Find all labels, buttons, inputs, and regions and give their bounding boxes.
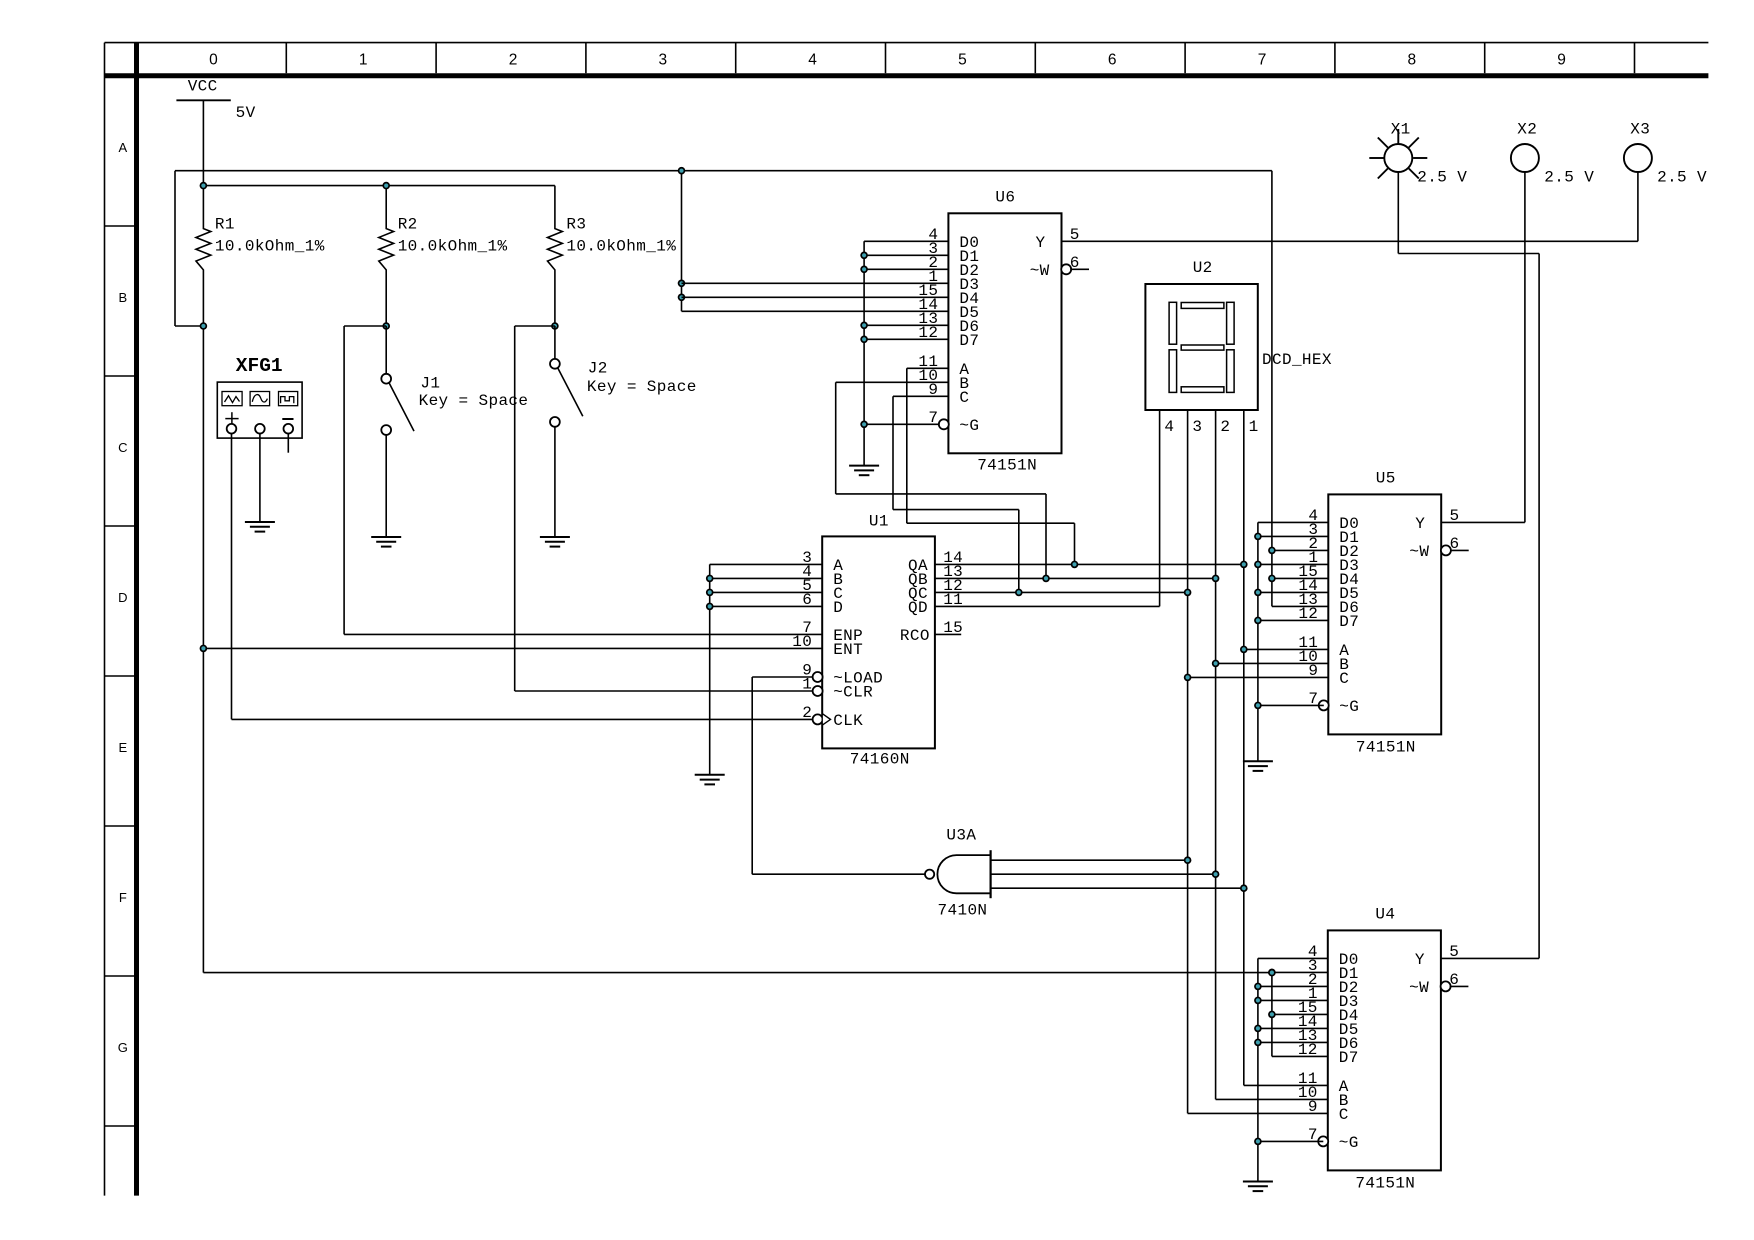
multiplexer U6 74151N (918, 189, 1089, 475)
svg-text:8: 8 (1407, 52, 1416, 69)
probe X2 (1511, 121, 1594, 187)
svg-text:7: 7 (1258, 52, 1267, 69)
svg-text:F: F (119, 890, 127, 905)
svg-text:74151N: 74151N (1355, 1174, 1415, 1192)
svg-text:U6: U6 (995, 189, 1015, 207)
svg-text:U1: U1 (869, 513, 889, 531)
wire U1 QC row (935, 591, 1188, 593)
wire high-net right drop x1272 (1271, 171, 1273, 607)
svg-text:B: B (118, 290, 127, 305)
wire X2 to U5 Y (1524, 171, 1526, 522)
svg-text:2: 2 (1220, 418, 1230, 436)
node U4 D1 high (1268, 969, 1276, 977)
switch J2 (550, 326, 697, 537)
wire U6 D0 to ground bus (864, 241, 948, 465)
node U3A input2 tap (1212, 870, 1220, 878)
node U6 D2 bus (860, 266, 868, 274)
ground U4 bus (1243, 1182, 1273, 1192)
svg-text:RCO: RCO (900, 627, 930, 645)
svg-text:G: G (118, 1040, 128, 1055)
wire U5 D1 (1258, 535, 1328, 537)
resistor R1 (196, 186, 325, 326)
wire U5 B select (1212, 660, 1329, 668)
node QC to display column 3 (1184, 589, 1192, 597)
svg-text:3: 3 (658, 52, 667, 69)
wire U1 QB row (935, 577, 1216, 579)
wire U6 D1 (864, 254, 948, 256)
svg-text:~G: ~G (959, 417, 979, 435)
svg-text:5: 5 (958, 52, 967, 69)
node U4 D6 bus (1254, 1039, 1262, 1047)
node U4 D3 bus (1254, 997, 1262, 1005)
wire U6 D7 (864, 338, 948, 340)
node U4 D1 from high run (1268, 969, 1276, 977)
wire U4 D0 to ground bus (1258, 958, 1328, 1181)
wire U6 ~G to bus (864, 423, 940, 425)
node U5 D1 bus (1254, 533, 1262, 541)
display U2 DCD_HEX (1145, 259, 1331, 436)
wire high-net drop to U6 data x681 (681, 171, 683, 312)
wire XFG1 plus terminal to U1 CLK (232, 434, 813, 720)
svg-text:XFG1: XFG1 (236, 355, 283, 377)
svg-text:R1: R1 (215, 216, 235, 234)
node R3 bottom junction (551, 322, 559, 330)
svg-text:X2: X2 (1517, 121, 1537, 139)
node U1 C bus (706, 589, 714, 597)
counter U1 74160N (792, 513, 963, 769)
wire U6 D4 (682, 296, 949, 298)
ground XFG1 common (245, 522, 275, 532)
wire U3A output to U1 ~LOAD (752, 677, 925, 874)
svg-text:2.5 V: 2.5 V (1657, 169, 1707, 187)
node U6 D4 tap (678, 294, 686, 302)
svg-text:~G: ~G (1339, 698, 1359, 716)
wire U4 high column D1-D4-D7 (1272, 973, 1328, 1057)
wire U5 D5 (1258, 591, 1328, 593)
node U4 D5 bus (1254, 1025, 1262, 1033)
node U5 D7 bus (1254, 617, 1262, 625)
svg-text:1: 1 (359, 52, 368, 69)
ground U5 bus (1243, 761, 1273, 771)
svg-text:U2: U2 (1193, 259, 1213, 277)
svg-text:3: 3 (1192, 418, 1202, 436)
svg-text:2: 2 (509, 52, 518, 69)
svg-text:U5: U5 (1376, 469, 1396, 487)
svg-text:VCC: VCC (188, 78, 218, 96)
wire X3 to U6 Y (1637, 171, 1639, 241)
wire high-net pullup column x203 (202, 326, 204, 973)
node QA to U6 A path (1071, 561, 1079, 569)
svg-text:2.5 V: 2.5 V (1544, 169, 1594, 187)
svg-text:~CLR: ~CLR (833, 684, 873, 702)
svg-text:DCD_HEX: DCD_HEX (1262, 351, 1332, 369)
wire U5 D2 (1272, 549, 1328, 551)
wire U5 ~G to bus (1258, 704, 1324, 706)
node U5 D5 bus (1254, 589, 1262, 597)
node U1 D bus (706, 603, 714, 611)
wire high-net bottom run to U4 D1 (203, 972, 1272, 974)
svg-text:Y: Y (1415, 515, 1425, 533)
ground U1 bus (695, 775, 725, 785)
wire U1 RCO stub (935, 633, 961, 635)
svg-text:74160N: 74160N (850, 750, 910, 768)
node U4 D2 bus (1254, 983, 1262, 991)
svg-text:C: C (1339, 670, 1349, 688)
node QC to U6 C path (1015, 589, 1023, 597)
wire U5 Y output to X2 (1441, 521, 1525, 523)
svg-text:D7: D7 (1339, 613, 1359, 631)
svg-text:~G: ~G (1339, 1134, 1359, 1152)
svg-text:E: E (118, 740, 127, 755)
node QB to display column 2 (1212, 575, 1220, 583)
wire U6 D5 (682, 310, 949, 312)
node U6 D6 bus (860, 322, 868, 330)
svg-text:Key = Space: Key = Space (419, 392, 529, 410)
node U5 D3 bus (1254, 561, 1262, 569)
wire U2 pin1 column (1244, 410, 1328, 1085)
wire U4 D4 (1272, 1013, 1328, 1015)
svg-text:74151N: 74151N (977, 457, 1037, 475)
ground J1 (371, 537, 401, 547)
svg-text:C: C (959, 389, 969, 407)
resistor R2 (379, 186, 508, 326)
svg-text:J1: J1 (420, 375, 440, 393)
node U4 D4 high (1268, 1011, 1276, 1019)
wire U6 A select path (907, 368, 1075, 564)
svg-text:0: 0 (209, 52, 218, 69)
node U6 D1 bus (860, 252, 868, 260)
wire XFG1 common terminal to ground (259, 434, 261, 523)
svg-text:10.0kOhm_1%: 10.0kOhm_1% (566, 238, 676, 256)
wire high-net top rail y171 (175, 170, 1272, 172)
node U3A input1 tap (1184, 856, 1192, 864)
wire XFG1 minus terminal stub (287, 434, 289, 453)
wire U5 D6 (1272, 605, 1328, 607)
ground U6 bus (849, 466, 879, 476)
svg-text:~W: ~W (1030, 262, 1050, 280)
svg-text:1: 1 (1249, 418, 1259, 436)
multiplexer U4 74151N (1298, 905, 1469, 1192)
svg-text:D7: D7 (1339, 1049, 1359, 1067)
svg-text:2: 2 (802, 704, 812, 722)
svg-text:A: A (118, 140, 127, 155)
wire U5 D4 (1272, 577, 1328, 579)
probe X1 (1369, 121, 1467, 187)
svg-text:R3: R3 (566, 216, 586, 234)
svg-text:QD: QD (908, 599, 928, 617)
wire U6 Y output to X3 (1062, 240, 1638, 242)
wire U1 QD row (935, 605, 1160, 607)
svg-text:10.0kOhm_1%: 10.0kOhm_1% (215, 238, 325, 256)
svg-text:CLK: CLK (833, 712, 863, 730)
wire U1 QA row (935, 563, 1244, 565)
node VCC-R1 junction (200, 182, 208, 190)
function generator XFG1 (217, 355, 302, 438)
wire high-net left loop (175, 171, 203, 326)
wire VCC rail y186 (203, 185, 555, 187)
wire U5 D7 (1258, 619, 1328, 621)
wire U4 ~G to bus (1258, 1140, 1323, 1142)
wire U5 A select (1240, 646, 1328, 654)
svg-text:U4: U4 (1375, 905, 1395, 923)
wire U5 D3 (1258, 563, 1328, 565)
node ENT tap on pullup column (200, 645, 823, 653)
node QB to U6 B path (1042, 575, 1050, 583)
svg-text:R2: R2 (398, 216, 418, 234)
NAND gate U3A 7410N (925, 827, 991, 920)
wire U4 D2 (1258, 985, 1328, 987)
node U3A input3 tap (1240, 884, 1248, 892)
svg-text:10.0kOhm_1%: 10.0kOhm_1% (398, 238, 508, 256)
svg-text:D7: D7 (959, 332, 979, 350)
ground J2 (540, 537, 570, 547)
wire U4 D1 (1272, 971, 1328, 973)
resistor R3 (548, 186, 677, 326)
wire J2 node to CLR run (515, 326, 813, 691)
power VCC 5V (176, 78, 255, 186)
wire U6 C select path (893, 396, 1019, 592)
svg-text:J2: J2 (588, 360, 608, 378)
svg-text:7410N: 7410N (938, 902, 988, 920)
node U1 B bus (706, 575, 714, 583)
wire J1 node to ENP run (344, 326, 822, 634)
svg-text:U3A: U3A (946, 827, 976, 845)
node R1 bottom junction (200, 322, 208, 330)
svg-text:74151N: 74151N (1356, 738, 1416, 756)
wire U3A input 2 (991, 873, 1216, 875)
svg-text:1: 1 (802, 676, 812, 694)
svg-text:4: 4 (1164, 418, 1174, 436)
node U6 D3 tap (678, 280, 686, 288)
wire U3A input 1 (991, 859, 1188, 861)
wire U1 ABCD ground bus (710, 564, 823, 774)
svg-text:9: 9 (1557, 52, 1566, 69)
svg-text:6: 6 (1108, 52, 1117, 69)
svg-text:2.5 V: 2.5 V (1417, 169, 1467, 187)
node QA to display column 1 (1240, 561, 1248, 569)
node VCC-R2 junction (382, 182, 390, 190)
svg-text:D: D (118, 590, 127, 605)
svg-text:C: C (1339, 1106, 1349, 1124)
wire U2 pin3 column (1188, 410, 1328, 1113)
wire U6 B select path (836, 382, 1046, 578)
svg-text:Key = Space: Key = Space (587, 378, 697, 396)
wire U2 pin2 column (1216, 410, 1328, 1099)
wire U4 D6 (1258, 1041, 1328, 1043)
wire U3A input 3 (991, 887, 1244, 889)
node U5 ~G bus (1254, 702, 1262, 710)
wire U6 D2 (864, 268, 948, 270)
switch J1 (381, 326, 528, 537)
wire U4 D3 (1258, 999, 1328, 1001)
wire U2 pin4 to QD (1159, 410, 1161, 606)
wire U5 D0 to ground bus (1258, 522, 1328, 761)
svg-text:ENT: ENT (833, 641, 863, 659)
node U5 D2 high (1268, 547, 1276, 555)
svg-text:4: 4 (808, 52, 817, 69)
svg-text:X3: X3 (1630, 121, 1650, 139)
svg-text:5V: 5V (236, 104, 256, 122)
wire U6 D6 (864, 324, 948, 326)
wire U4 Y output to X1 riser (1398, 171, 1539, 958)
svg-text:C: C (118, 440, 127, 455)
multiplexer U5 74151N (1298, 469, 1468, 756)
svg-text:Y: Y (1036, 234, 1046, 252)
svg-text:D: D (833, 599, 843, 617)
node top rail to U6 drop (678, 167, 686, 175)
svg-text:~W: ~W (1409, 543, 1429, 561)
svg-text:~W: ~W (1409, 979, 1429, 997)
node U5 D4 high (1268, 575, 1276, 583)
svg-text:Y: Y (1415, 951, 1425, 969)
svg-text:X1: X1 (1391, 121, 1411, 139)
wire U5 C select (1184, 674, 1329, 682)
probe X3 (1624, 121, 1707, 187)
wire U6 D3 (682, 282, 949, 284)
wire U4 D5 (1258, 1027, 1328, 1029)
node R2 bottom junction (382, 322, 390, 330)
node U4 ~G bus (1254, 1138, 1262, 1146)
node U6 D7 bus (860, 336, 868, 344)
node U6 ~G bus (860, 421, 868, 429)
svg-text:9: 9 (1308, 1098, 1318, 1116)
